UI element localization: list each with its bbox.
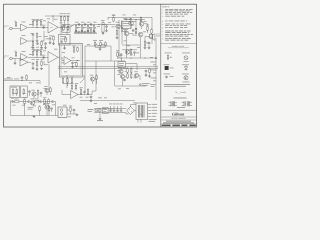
resistor R54 (71, 83, 74, 90)
capacitor C10 (132, 29, 135, 32)
wire (127, 26, 142, 40)
wire (33, 50, 45, 58)
label trem rate (28, 107, 34, 109)
resistor R14 (120, 25, 123, 32)
supply feed rail wire (108, 17, 152, 20)
op-amp U2 (48, 22, 58, 34)
wire (44, 45, 47, 49)
legend footer text (164, 84, 190, 86)
maker logo (172, 111, 185, 116)
notes heading (162, 5, 170, 8)
wire (12, 28, 20, 30)
feedback wire (44, 61, 48, 65)
wire (11, 100, 56, 103)
border frame (4, 4, 197, 127)
bass pot VR3 (86, 24, 90, 32)
wire (72, 89, 76, 92)
ground (40, 67, 43, 69)
title row line (161, 119, 197, 121)
wire (10, 101, 12, 116)
resistor R22 (32, 49, 35, 56)
note 4 text (162, 20, 187, 23)
rail label B (151, 69, 157, 72)
ground (32, 46, 35, 48)
wire (74, 33, 97, 35)
wire (45, 57, 48, 59)
title block band line (161, 123, 197, 125)
note 6 text (162, 27, 187, 30)
input jack J2 label (4, 54, 9, 59)
wire (36, 38, 39, 42)
resistor R1 (14, 21, 17, 28)
wire (118, 56, 122, 59)
resistor R62 (71, 76, 74, 83)
voltage label +15V (152, 109, 158, 112)
switch S2 (16, 88, 18, 96)
label fuzz (124, 41, 150, 54)
capacitor C46 (125, 18, 128, 21)
resistor R3 (36, 19, 39, 26)
output transformer OT-1 symbol (169, 101, 178, 106)
voltage label -40V (152, 106, 158, 109)
note 1 text (162, 8, 193, 11)
capacitor C21 (42, 55, 45, 59)
driver IC box (122, 22, 132, 29)
note 2 text (162, 12, 192, 15)
transistor Q2 (128, 19, 134, 26)
wire (112, 24, 116, 26)
capacitor C11 (148, 42, 151, 45)
feedback wire (42, 31, 49, 41)
wire (131, 105, 137, 111)
resistor R26 (41, 60, 43, 66)
node (99, 23, 104, 26)
wire (4, 79, 41, 82)
treble pot VR2 (80, 24, 84, 32)
resistor R33 (127, 73, 129, 79)
transistor Q9 (44, 86, 49, 92)
note 8 text (162, 34, 193, 37)
wire (93, 79, 97, 84)
mains voltage label (88, 109, 94, 111)
speaker label (156, 34, 160, 37)
transformer chart heading (174, 97, 187, 100)
wire (155, 38, 157, 100)
arrow marker (155, 57, 157, 59)
resistor R27 (72, 46, 75, 53)
T1 tap wires (148, 105, 151, 117)
wire (81, 93, 88, 94)
note 7 text (162, 30, 190, 33)
resistor R53 (130, 73, 132, 79)
wire (62, 90, 71, 95)
wire (28, 36, 33, 41)
resistor R10 (67, 13, 70, 21)
ground (76, 114, 79, 116)
resistor R13 (116, 29, 118, 35)
power amp bottom wire (118, 57, 156, 60)
capacitor C2 (32, 33, 35, 36)
capacitor C34 (51, 100, 54, 103)
wire (144, 44, 151, 49)
wire (122, 50, 137, 56)
op-amp U1B (21, 35, 28, 44)
resistor R7 (41, 40, 43, 46)
title block bottom band (162, 125, 196, 127)
wire (122, 68, 127, 87)
capacitor C7 (84, 23, 87, 26)
diode D2 (135, 31, 137, 34)
footswitch box FS2 (21, 86, 28, 98)
footswitch box FS1 (10, 86, 20, 98)
wire (14, 59, 16, 63)
legend heading underline (168, 47, 189, 49)
op-amp U3B (20, 59, 28, 67)
wire (119, 20, 140, 58)
transistor Q10 (30, 99, 34, 106)
wire (71, 60, 80, 62)
svg-text:NOTES:: NOTES: (162, 5, 170, 8)
transistor Q7 (117, 70, 124, 78)
ground (75, 30, 96, 32)
shield box inner (61, 45, 81, 76)
mains label (149, 119, 157, 121)
wire (47, 109, 52, 115)
resistor R25 (36, 60, 39, 70)
capacitor C4 (44, 42, 47, 45)
transformer caption (177, 106, 185, 109)
voltage label +40V (152, 103, 158, 106)
resistor R39 (69, 106, 72, 113)
pilot lamp LP1 (98, 109, 101, 112)
transistor Q13 (31, 90, 36, 96)
label fuzz (123, 29, 128, 31)
power transformer T1 box (136, 103, 148, 120)
label fuzz (75, 21, 97, 24)
reverb jack RCA1 (60, 109, 63, 112)
resistor R23 (36, 49, 39, 56)
wire (45, 27, 48, 29)
legend heading (172, 45, 185, 48)
title line 3 (163, 122, 194, 125)
wire (131, 24, 135, 26)
wire (61, 27, 67, 47)
resistor R11 (101, 20, 105, 33)
resistor R29 (76, 61, 78, 67)
rail label A (151, 61, 157, 64)
filter cap C37 (116, 104, 119, 112)
capacitor C23 (71, 62, 74, 66)
resistor R41 (23, 97, 26, 104)
depth pot VR6 (99, 40, 103, 47)
node (74, 52, 78, 61)
wire rail (124, 19, 145, 21)
legend jack symbol (182, 53, 190, 62)
capacitor C28 (83, 91, 86, 94)
wire (49, 40, 55, 45)
transistor Q12 (125, 50, 129, 54)
resistor R60 (62, 76, 65, 83)
transistor Q4 (124, 31, 129, 36)
wire (116, 35, 119, 39)
reverb jack RCA2 (60, 113, 63, 116)
wire output bus (145, 37, 150, 42)
volume pot VR1 (74, 24, 79, 32)
label fuzz (112, 14, 136, 17)
notes column separator line (160, 4, 162, 127)
wire (52, 16, 55, 22)
mains plug label (97, 119, 103, 122)
op-amp U4 (48, 52, 58, 64)
capacitor C5 (63, 24, 66, 27)
title block top line (161, 109, 197, 111)
bottom return wire (11, 115, 59, 117)
label fuzz (32, 58, 44, 61)
resistor R30 (105, 41, 107, 47)
wire (58, 56, 60, 58)
capacitor C42 (84, 31, 87, 34)
capacitor C24 (120, 53, 123, 56)
legend transistor symbol (182, 74, 190, 83)
ground (14, 62, 17, 64)
resistor R59 (140, 17, 141, 23)
resistor R57 (67, 25, 68, 31)
rail label C (151, 77, 157, 80)
capacitor C47 (129, 18, 132, 21)
ground (33, 115, 36, 117)
op-amp U3A (21, 51, 28, 60)
capacitor C1 (42, 25, 45, 29)
op-amp U1A (21, 22, 28, 31)
svg-text:R1: R1 (14, 21, 16, 23)
power transformer T1 core (140, 105, 142, 118)
title line 2 (166, 120, 191, 123)
op-amp U5 (64, 57, 71, 65)
footswitch wire label (4, 78, 19, 81)
legend cap symbol (164, 74, 174, 79)
capacitor C48 (145, 70, 148, 73)
capacitor C6 (78, 23, 81, 26)
wire (28, 57, 33, 59)
ground (90, 100, 93, 102)
legend ldr symbol (164, 64, 174, 69)
capacitor C29 (90, 96, 93, 100)
speed pot VR5 (93, 40, 97, 47)
wire (12, 58, 20, 60)
ground (99, 118, 102, 120)
resistor R63 (96, 74, 98, 80)
wire (61, 22, 68, 28)
mains lead wire (138, 120, 141, 123)
legend chart caption (175, 91, 186, 94)
wire (94, 109, 127, 113)
transistor Q3 (139, 20, 144, 27)
legend diode symbol (182, 64, 189, 70)
capacitor C26 (21, 76, 24, 80)
resistor R17 (144, 40, 146, 46)
wire (62, 57, 64, 61)
resistor R42 (33, 99, 40, 102)
diode D1 (135, 27, 137, 30)
power switch S4 (103, 108, 109, 114)
capacitor C27 (28, 90, 31, 96)
capacitor C40 (60, 40, 63, 43)
wire (102, 30, 108, 35)
transistor Q5 (138, 32, 143, 37)
diode D3 (139, 84, 141, 86)
capacitor C41 (78, 31, 81, 34)
resistor R21 (14, 51, 17, 58)
note 5 text (162, 23, 190, 26)
resistor R44 (48, 98, 50, 104)
voltage label GND (152, 115, 157, 118)
svg-text:SYMBOL CODE: SYMBOL CODE (172, 45, 185, 48)
input jack J2 (9, 57, 13, 60)
wire (33, 20, 45, 28)
ground (63, 47, 66, 49)
resistor R6 (31, 40, 34, 47)
capacitor C43 (40, 92, 43, 95)
wire (34, 94, 41, 99)
note 3 text (162, 15, 184, 18)
wire (148, 30, 152, 34)
switch S1 (12, 88, 14, 96)
resistor R64 (149, 68, 150, 74)
voltage label -15V (152, 112, 158, 115)
wire (58, 26, 70, 29)
wire (99, 113, 101, 118)
filter cap C38 (120, 104, 123, 112)
component value labels fuzz (7, 19, 156, 118)
wire (129, 34, 133, 37)
wire (95, 47, 106, 50)
transistor Q6 (118, 68, 123, 74)
label to reverb (142, 83, 150, 85)
resistor R40 (13, 99, 20, 103)
capacitor C3 (36, 42, 39, 47)
wire (28, 26, 33, 29)
wire (67, 110, 77, 114)
resistor R36 (50, 87, 52, 93)
capacitor C32 (27, 100, 30, 103)
output transformer OT-2 symbol (182, 101, 193, 106)
capacitor C25 (123, 79, 126, 82)
resistor R45 (39, 105, 41, 111)
wire (67, 75, 84, 88)
wire (122, 19, 152, 29)
resistor R46 (48, 105, 50, 111)
resistor R5 (36, 32, 38, 38)
fuse F1 (95, 109, 98, 112)
bridge rectifier BR1 (127, 107, 135, 115)
resistor R34 (130, 66, 133, 73)
resistor R37 (80, 87, 83, 94)
vertical wire (85, 61, 96, 91)
supply rail +V wire (58, 66, 158, 68)
resistor R28 (77, 46, 79, 52)
note 9 text (162, 38, 190, 41)
transistor Q8 (134, 71, 138, 77)
svg-text:SPKR: SPKR (156, 34, 160, 36)
power transformer T1 primary winding (138, 105, 139, 118)
reverb tank box (58, 107, 67, 118)
op-amp U6 (71, 91, 79, 99)
wire (70, 25, 112, 28)
resistor R18 (130, 48, 132, 54)
resistor R32 (126, 66, 129, 73)
resistor R31 (116, 50, 119, 57)
capacitor C31 (11, 98, 14, 103)
wire (28, 61, 31, 63)
resistor R61 (67, 77, 69, 83)
wire (92, 91, 96, 95)
capacitor C9 (105, 25, 108, 30)
middle pot VR4 (92, 24, 96, 32)
tone network box (59, 35, 71, 46)
resistor R24 (40, 49, 43, 56)
capacitor C22 (32, 62, 35, 69)
capacitor C33 (39, 100, 42, 103)
capacitor C45 (49, 37, 52, 40)
resistor R58 (53, 35, 55, 41)
resistor R38 (87, 88, 89, 94)
wire (85, 46, 125, 61)
input jack J1 label (4, 24, 9, 29)
wire (47, 85, 51, 95)
shield box outer (60, 44, 83, 78)
wire (145, 72, 151, 77)
transistor Q14 (90, 75, 95, 81)
resistor R35 (26, 74, 28, 80)
logo row line (161, 116, 197, 118)
capacitor C30 (73, 109, 76, 112)
resistor R4 (40, 19, 43, 26)
filter cap C36 (113, 104, 116, 112)
mains wire (80, 100, 135, 102)
capacitor C8 (90, 23, 93, 26)
resistor R55 (75, 83, 78, 90)
transistor Q11 (44, 103, 49, 109)
resistor R8 (60, 13, 63, 21)
vertical wire (114, 61, 116, 86)
input jack J1 (9, 27, 13, 30)
wire (144, 24, 148, 26)
transistor Q1 (116, 22, 121, 29)
switch S3 (23, 88, 25, 95)
node (33, 27, 38, 41)
capacitor C44 (50, 107, 53, 110)
resistor R51 (90, 28, 91, 34)
svg-text:R21: R21 (14, 51, 17, 53)
wire (78, 93, 92, 96)
resistor R16 (151, 28, 153, 34)
capacitor C12 (133, 51, 136, 54)
resistor R15 (146, 25, 149, 32)
ground (71, 66, 74, 68)
wire (40, 64, 49, 85)
wire (122, 31, 152, 58)
relay box K1 (62, 25, 70, 33)
wire (25, 102, 56, 116)
resistor R50 (65, 36, 67, 42)
wire (63, 84, 72, 86)
filter cap C35 (109, 104, 112, 112)
legend pot symbol (165, 53, 172, 61)
ground (40, 46, 43, 48)
resistor R12 (112, 15, 115, 22)
wire (115, 76, 146, 87)
resistor R9 (63, 13, 66, 21)
